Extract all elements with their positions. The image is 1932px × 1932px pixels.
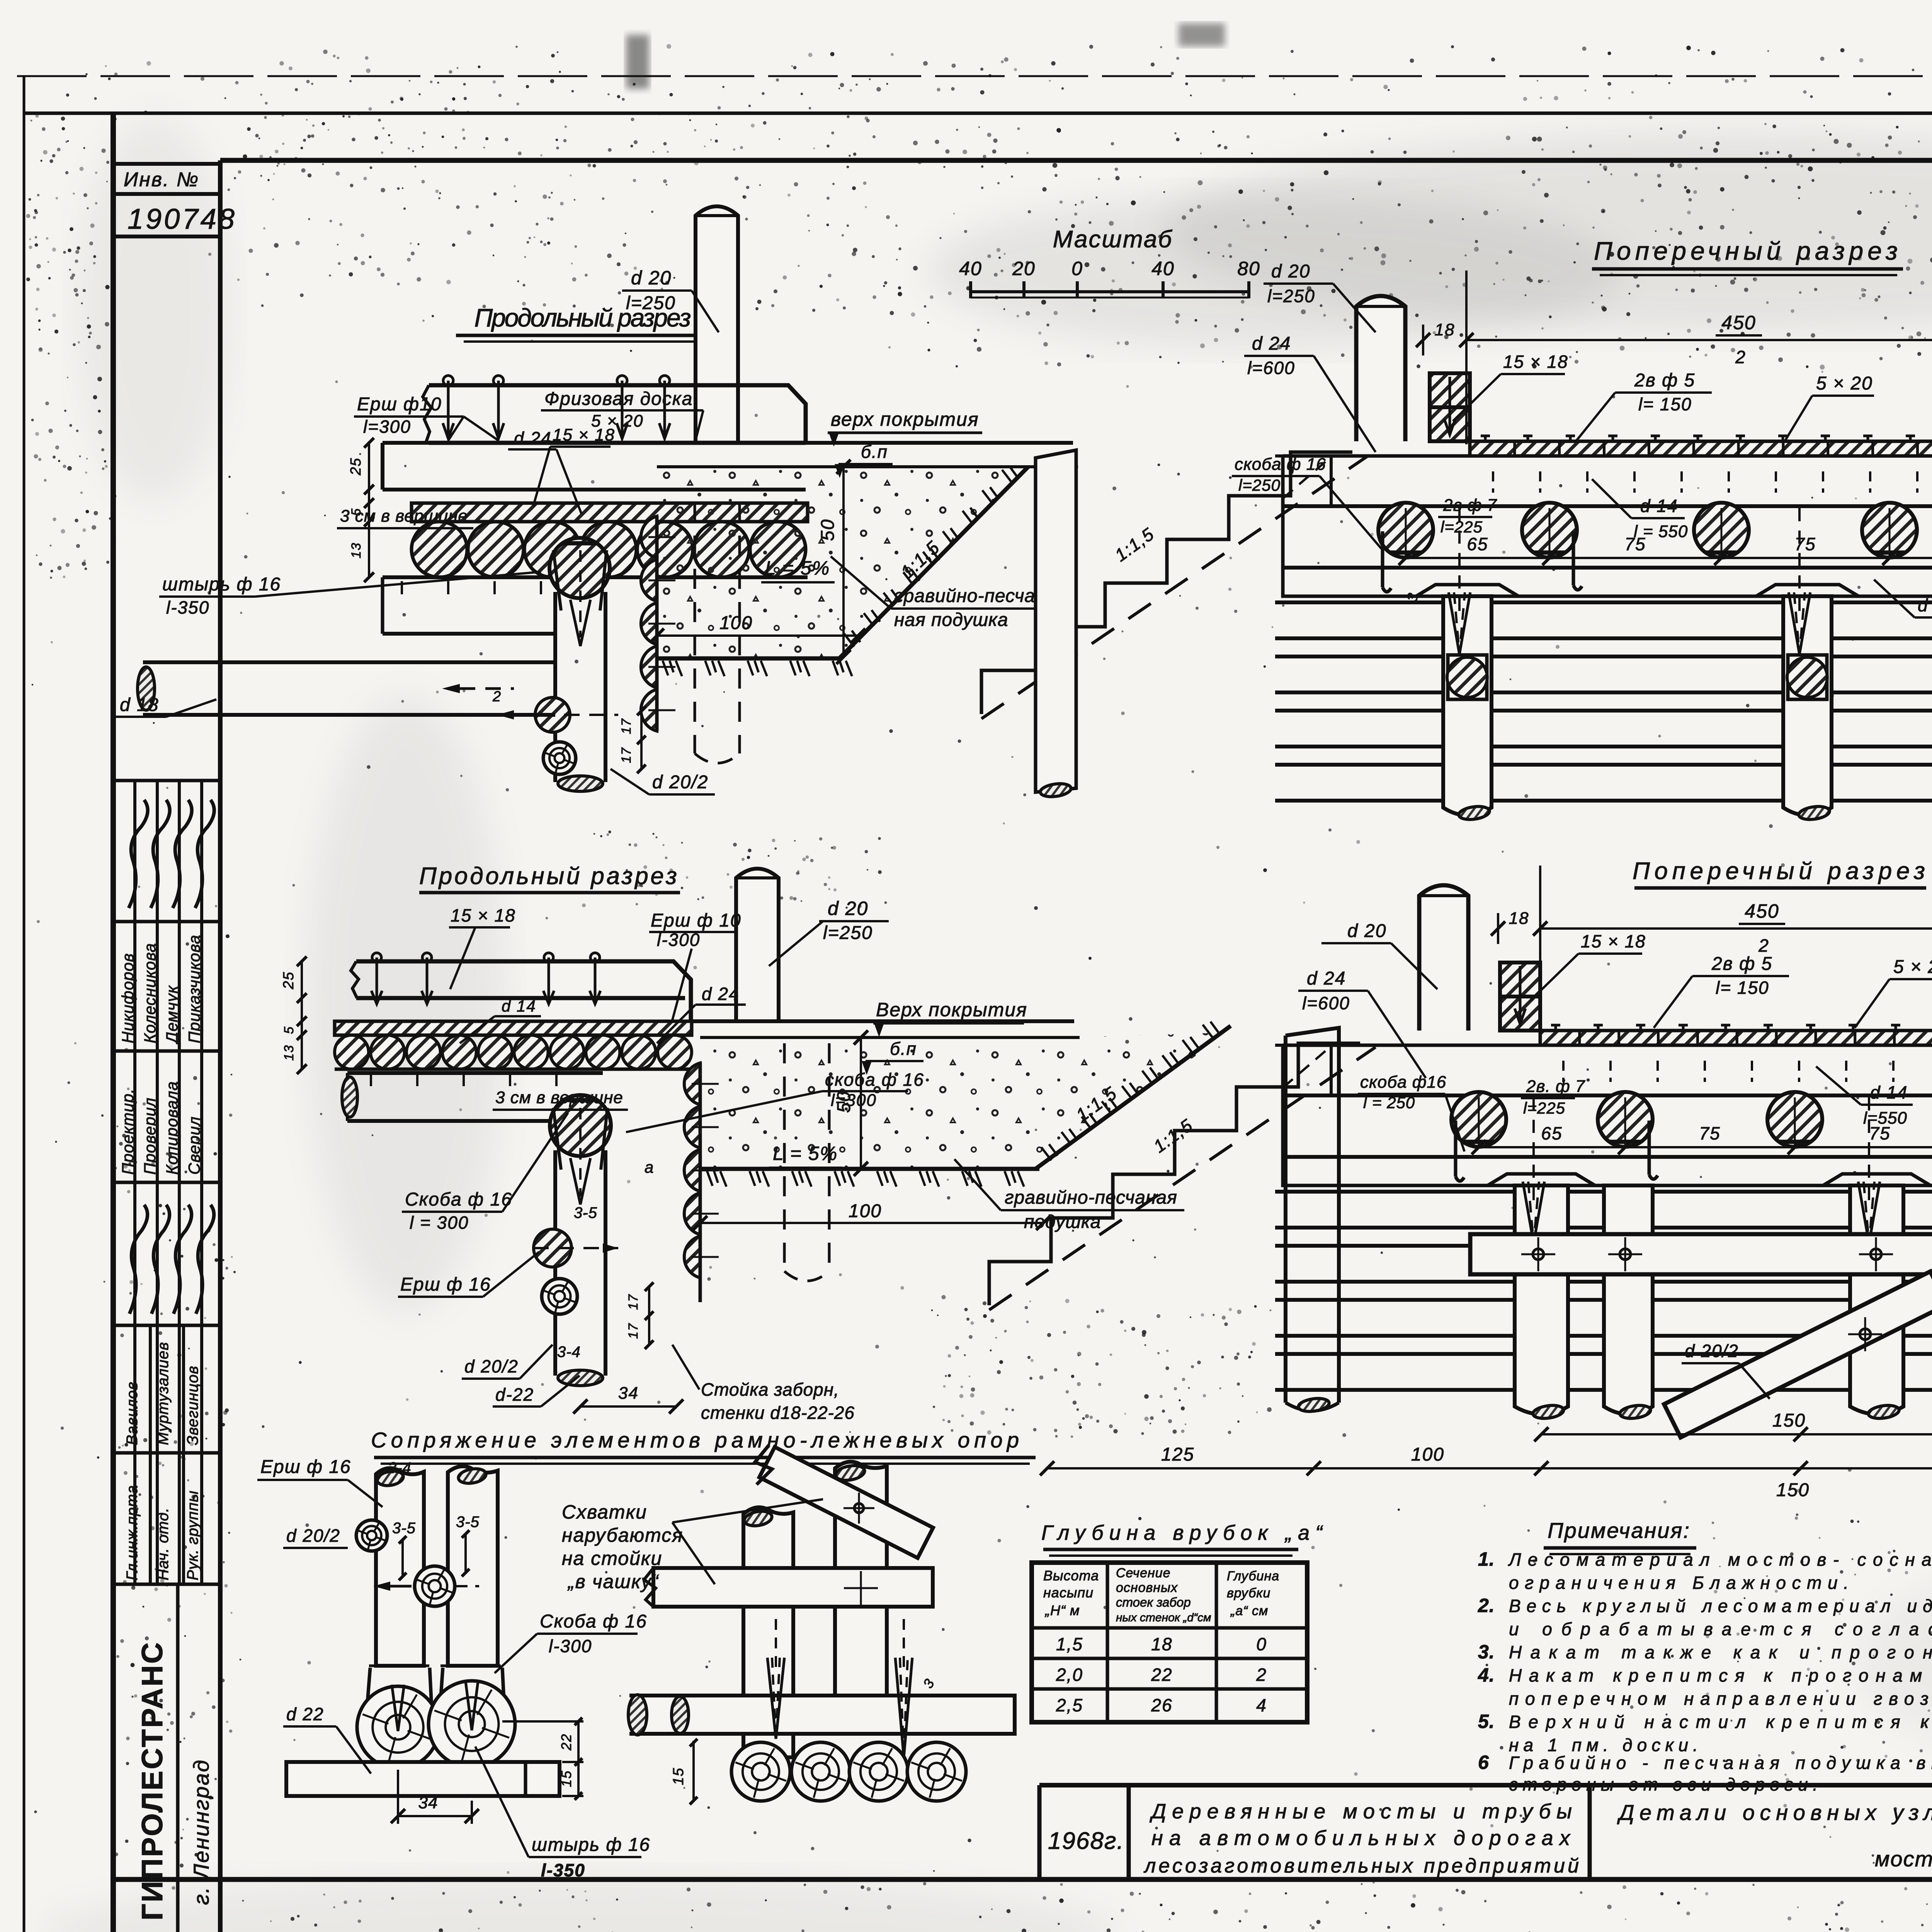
- outer sheet border (thin): [17, 75, 1932, 77]
- svg-text:34: 34: [418, 1793, 438, 1812]
- svg-text:20: 20: [1012, 258, 1036, 279]
- CS1 embankment steps: [981, 452, 1368, 719]
- svg-text:„а“ см: „а“ см: [1230, 1604, 1268, 1618]
- svg-text:l=250: l=250: [1238, 476, 1281, 494]
- LS2 labels: [398, 898, 1184, 1423]
- svg-text:d 20: d 20: [631, 267, 672, 289]
- svg-text:l= 150: l= 150: [1716, 978, 1769, 998]
- org city г. Ленинград rotated: [189, 1759, 213, 1905]
- svg-text:мостов: мостов: [1875, 1847, 1932, 1871]
- assembly left: posts on лежень: [286, 1466, 583, 1824]
- svg-text:22: 22: [558, 1733, 574, 1751]
- svg-text:65: 65: [1467, 534, 1488, 554]
- dim L=5%: [769, 1143, 842, 1168]
- CS2 embankment steps: [989, 1043, 1376, 1310]
- LONGITUDINAL SECTION 2: [281, 869, 1231, 1386]
- svg-text:3-4: 3-4: [388, 1459, 412, 1476]
- bottom dims: [1541, 1433, 1932, 1435]
- схватка end (rings): [542, 1279, 577, 1314]
- svg-text:6: 6: [1478, 1752, 1489, 1773]
- насадка band: [1283, 1155, 1932, 1159]
- svg-text:d 24: d 24: [1252, 333, 1291, 354]
- ерш ф16 (hatched small circle): [534, 1229, 571, 1267]
- svg-text:5 × 20: 5 × 20: [1893, 957, 1932, 977]
- slope line 1:1.5: [1036, 1026, 1231, 1169]
- svg-text:насыпи: насыпи: [1043, 1585, 1094, 1600]
- svg-text:г. Ленинград: г. Ленинград: [189, 1759, 213, 1905]
- прогоны (hatched circles): [1378, 503, 1433, 558]
- svg-text:25: 25: [348, 457, 364, 476]
- svg-text:l=250: l=250: [823, 923, 873, 943]
- svg-text:Примечания:: Примечания:: [1548, 1518, 1690, 1543]
- dim 50: [842, 467, 845, 657]
- схватка d16 plank: [1470, 1234, 1932, 1274]
- svg-text:18: 18: [1435, 320, 1455, 339]
- svg-text:15: 15: [558, 1770, 574, 1787]
- настил board band: [1283, 1044, 1932, 1047]
- svg-text:Верх покрытия: Верх покрытия: [876, 999, 1027, 1020]
- svg-text:l = 300: l = 300: [410, 1213, 469, 1233]
- svg-text:а: а: [645, 1158, 654, 1176]
- svg-text:17: 17: [626, 1294, 641, 1310]
- svg-text:врубки: врубки: [1227, 1586, 1270, 1600]
- сваи (piles): [1443, 596, 1492, 815]
- верхний настил (hatched strip): [1470, 441, 1932, 456]
- svg-text:d 20: d 20: [1347, 921, 1386, 941]
- опорная стойка (pile): [553, 592, 557, 782]
- svg-text:l=250: l=250: [1267, 286, 1315, 306]
- svg-text:гравийно-песчаная: гравийно-песчаная: [1005, 1187, 1177, 1208]
- svg-text:Весь круглый лесоматериал: Весь круглый лесоматериал идет в дело с …: [1509, 1596, 1932, 1616]
- dims 17 17: [640, 711, 643, 769]
- svg-text:l-350: l-350: [541, 1860, 585, 1880]
- stamp column rotated names: [119, 800, 214, 1314]
- svg-text:75: 75: [1699, 1123, 1720, 1143]
- svg-text:Масштаб: Масштаб: [1053, 226, 1173, 253]
- накат logs row: [335, 1035, 369, 1069]
- svg-text:40: 40: [1151, 258, 1175, 279]
- svg-text:Продольный разрез: Продольный разрез: [419, 863, 678, 889]
- svg-text:5.: 5.: [1478, 1711, 1495, 1732]
- deck plank (hatched strip): [412, 503, 808, 522]
- насадка band: [1283, 566, 1932, 570]
- svg-text:1968г.: 1968г.: [1048, 1828, 1124, 1854]
- svg-text:l= 150: l= 150: [1638, 394, 1692, 414]
- svg-text:стоек забор: стоек забор: [1116, 1595, 1191, 1609]
- svg-text:l=600: l=600: [1302, 993, 1350, 1013]
- svg-text:65: 65: [1541, 1123, 1562, 1143]
- заборная стенка logs: [1275, 600, 1932, 604]
- svg-text:40: 40: [959, 258, 982, 279]
- stamp column roles bottom: [124, 1325, 201, 1584]
- LS1 labels: [116, 267, 1070, 794]
- svg-text:нарубаются: нарубаются: [562, 1524, 683, 1546]
- deck plank (hatched): [335, 1021, 692, 1035]
- svg-text:3 см в вершине: 3 см в вершине: [495, 1088, 623, 1107]
- svg-text:2: 2: [1256, 1665, 1267, 1685]
- svg-text:15 × 18: 15 × 18: [451, 905, 516, 925]
- svg-text:l=300: l=300: [831, 1091, 877, 1110]
- dims 17 17: [648, 1287, 650, 1345]
- svg-text:основных: основных: [1116, 1580, 1178, 1595]
- svg-text:l=550: l=550: [1863, 1109, 1907, 1128]
- svg-text:Сопряжение элементов рамно-л: Сопряжение элементов рамно-лежневых опор: [371, 1428, 1020, 1452]
- svg-text:ная подушка: ная подушка: [894, 610, 1008, 630]
- svg-text:5 × 20: 5 × 20: [1816, 373, 1873, 394]
- svg-text:34: 34: [618, 1384, 639, 1403]
- svg-text:1,5: 1,5: [1056, 1634, 1083, 1654]
- title: Поперечный разрез (top): [1592, 236, 1903, 275]
- заборная стенка logs: [1275, 1190, 1932, 1194]
- svg-text:„в чашку“: „в чашку“: [567, 1571, 659, 1592]
- svg-text:l-300: l-300: [549, 1636, 592, 1656]
- svg-text:гравийно-песча-: гравийно-песча-: [894, 586, 1042, 606]
- svg-text:100: 100: [719, 613, 753, 633]
- road surface lines: [806, 441, 1073, 445]
- svg-text:3-4: 3-4: [557, 1344, 581, 1361]
- diagonal схватка d20/2: [1664, 1271, 1932, 1437]
- svg-text:13: 13: [349, 542, 364, 558]
- svg-text:2,5: 2,5: [1056, 1695, 1083, 1715]
- deck top board: [429, 385, 806, 443]
- svg-text:d 20/2: d 20/2: [1685, 1341, 1739, 1361]
- svg-text:подушка: подушка: [1024, 1212, 1101, 1232]
- svg-text:150: 150: [1772, 1410, 1806, 1431]
- svg-text:на стойки: на стойки: [562, 1548, 662, 1569]
- svg-text:3-5: 3-5: [574, 1204, 597, 1221]
- svg-text:5: 5: [282, 1026, 296, 1034]
- svg-text:Ерш ф10: Ерш ф10: [357, 394, 442, 415]
- svg-text:Ерш ф 16: Ерш ф 16: [260, 1457, 351, 1477]
- svg-text:0: 0: [1071, 258, 1083, 279]
- svg-text:15 × 18: 15 × 18: [1503, 352, 1568, 372]
- dim L=5%: [761, 557, 835, 582]
- svg-text:d 14: d 14: [1870, 1082, 1908, 1102]
- svg-text:Ерш ф 16: Ерш ф 16: [400, 1274, 491, 1295]
- насадка d24 (hatched circle): [549, 538, 610, 598]
- svg-text:75: 75: [1794, 534, 1816, 554]
- title: Продольный разрез (top): [456, 303, 711, 342]
- svg-text:Колесникова: Колесникова: [141, 943, 159, 1043]
- dim 100: [700, 1222, 1043, 1224]
- dim 50: [860, 1037, 862, 1169]
- svg-text:Рук. группы: Рук. группы: [184, 1490, 201, 1580]
- перила стойка d20: [1356, 296, 1405, 441]
- svg-text:0: 0: [1256, 1634, 1267, 1654]
- svg-text:150: 150: [1776, 1480, 1810, 1500]
- svg-text:Схватки: Схватки: [562, 1501, 647, 1523]
- svg-text:3.: 3.: [1478, 1641, 1495, 1663]
- svg-text:26: 26: [1151, 1695, 1172, 1715]
- svg-text:2в ф 5: 2в ф 5: [1634, 370, 1695, 391]
- svg-text:l=225: l=225: [1440, 518, 1483, 536]
- заборная стенка (wall log halves): [641, 516, 657, 558]
- гравийно-песчаная подушка (dotted area): [657, 467, 1028, 658]
- svg-text:Ерш ф 10: Ерш ф 10: [651, 910, 742, 931]
- svg-text:15: 15: [670, 1767, 687, 1785]
- штырь circle: [535, 697, 570, 732]
- svg-text:d 18: d 18: [120, 695, 159, 715]
- svg-text:штырь ф 16: штырь ф 16: [532, 1835, 650, 1855]
- svg-text:Фризовая доска: Фризовая доска: [544, 389, 693, 409]
- svg-text:18: 18: [1151, 1634, 1172, 1654]
- насадка d24 (hatched circle): [550, 1095, 611, 1156]
- nails ерш: [443, 381, 454, 439]
- svg-text:100: 100: [1411, 1444, 1444, 1465]
- svg-text:„Н“ м: „Н“ м: [1044, 1602, 1080, 1618]
- svg-text:б.п: б.п: [861, 442, 888, 462]
- svg-text:стенки d18-22-26: стенки d18-22-26: [701, 1403, 855, 1423]
- svg-text:2: 2: [1758, 935, 1769, 956]
- svg-text:100: 100: [849, 1201, 882, 1221]
- svg-text:4.: 4.: [1478, 1664, 1495, 1686]
- title: Глубина врубок а: [1041, 1521, 1323, 1556]
- left edge dims: [301, 961, 303, 1069]
- svg-text:Стойка заборн,: Стойка заборн,: [701, 1379, 839, 1400]
- svg-text:3 см в вершине: 3 см в вершине: [340, 507, 468, 526]
- заборная стенка (wall log halves): [684, 1063, 700, 1105]
- title block: project name: [1143, 1800, 1579, 1877]
- колесоотбойный брус 15×18: [1500, 963, 1540, 997]
- перила стойка d20: [1419, 885, 1468, 1031]
- svg-text:25: 25: [281, 971, 297, 990]
- railing post d20: [736, 869, 779, 1021]
- svg-text:450: 450: [1721, 312, 1756, 333]
- svg-text:Демчук: Демчук: [163, 985, 181, 1045]
- left edge dims 25/5/13: [368, 443, 370, 577]
- svg-text:2в. ф 7: 2в. ф 7: [1526, 1077, 1585, 1096]
- svg-text:d 14: d 14: [502, 997, 536, 1015]
- ground line: [700, 1167, 1039, 1171]
- svg-text:Скоба ф 16: Скоба ф 16: [540, 1611, 647, 1632]
- svg-text:d-22: d-22: [495, 1384, 534, 1405]
- svg-text:l=250: l=250: [626, 293, 676, 313]
- buried pile (dashed): [783, 1043, 786, 1271]
- коротыши (squares with hatched circles): [1448, 655, 1487, 699]
- svg-text:Нач. отд.: Нач. отд.: [155, 1507, 172, 1580]
- left стойка (pile): [1286, 1028, 1339, 1403]
- svg-text:Поперечный разрез: Поперечный разрез: [1594, 236, 1899, 265]
- колесоотбойный брус 15×18: [1430, 373, 1470, 407]
- CROSS-SECTION 1 (top): [1275, 296, 1932, 821]
- org name ГИПРОЛЕСТРАНС rotated: [136, 1584, 178, 1932]
- dims 65 75 75 75/2: [1479, 1146, 1932, 1148]
- svg-text:l=300: l=300: [363, 417, 411, 437]
- svg-text:Муртузалиев: Муртузалиев: [155, 1342, 172, 1445]
- svg-text:L = 5%: L = 5%: [765, 557, 830, 579]
- svg-text:штырь ф 16: штырь ф 16: [162, 574, 281, 595]
- title block: sheet name: [1617, 1800, 1932, 1871]
- stamp column: Инв. № box: [113, 164, 220, 194]
- svg-text:Никифоров: Никифоров: [119, 953, 137, 1043]
- верхний настил (hatched strip): [1540, 1031, 1932, 1045]
- svg-text:l=225: l=225: [1523, 1099, 1565, 1117]
- dim 100: [657, 634, 858, 637]
- сваи (piles): [1515, 1185, 1568, 1414]
- svg-text:125: 125: [1161, 1444, 1194, 1465]
- насадка cap with notches: [1283, 1157, 1932, 1185]
- svg-text:Поперечный разрез: Поперечный разрез: [1633, 858, 1926, 884]
- svg-text:d 20/2: d 20/2: [464, 1356, 519, 1376]
- svg-text:Проектир.: Проектир.: [119, 1088, 137, 1175]
- настил board band: [1283, 454, 1932, 458]
- svg-text:50: 50: [818, 519, 838, 541]
- svg-text:Приказчикова: Приказчикова: [185, 935, 203, 1043]
- stamp column: inventory number 190748: [113, 194, 220, 236]
- svg-text:13: 13: [282, 1044, 296, 1061]
- notes text: [1478, 1548, 1932, 1794]
- схватка end (rings): [543, 742, 576, 774]
- ground line: [657, 656, 842, 661]
- assembly left labels: [257, 1457, 650, 1880]
- svg-text:190748: 190748: [128, 203, 237, 235]
- svg-text:17: 17: [626, 1323, 641, 1339]
- svg-text:3-5: 3-5: [392, 1520, 416, 1537]
- title: Примечания: [1544, 1518, 1696, 1554]
- main drawing frame: [111, 113, 116, 1932]
- svg-text:2в ф 5: 2в ф 5: [1711, 954, 1772, 974]
- svg-text:d 20/2: d 20/2: [286, 1526, 340, 1546]
- railing post d20: [696, 206, 738, 443]
- svg-text:скоба ф16: скоба ф16: [1360, 1073, 1446, 1092]
- svg-text:1.: 1.: [1478, 1548, 1495, 1570]
- svg-text:l-350: l-350: [166, 597, 209, 617]
- svg-text:d 24: d 24: [514, 428, 552, 448]
- svg-text:2: 2: [492, 689, 502, 705]
- svg-text:скоба ф 16: скоба ф 16: [825, 1070, 924, 1090]
- svg-text:d 28: d 28: [1918, 595, 1932, 615]
- svg-text:Скоба ф 16: Скоба ф 16: [405, 1189, 512, 1210]
- CS1 dims & labels: [1232, 261, 1932, 617]
- svg-text:d 20: d 20: [1271, 261, 1310, 282]
- svg-text:450: 450: [1745, 900, 1779, 922]
- svg-text:80: 80: [1237, 258, 1260, 279]
- svg-text:б.п: б.п: [890, 1039, 917, 1059]
- scale bar: [959, 258, 1260, 298]
- svg-text:d 20: d 20: [828, 898, 868, 919]
- svg-text:l = 550: l = 550: [1634, 522, 1688, 541]
- гравийно-песчаная подушка (dotted area): [700, 1032, 1229, 1169]
- svg-text:Инв. №: Инв. №: [124, 168, 199, 191]
- прогон beam: [346, 1073, 349, 1121]
- nails ерш: [371, 957, 382, 1004]
- title: Поперечный разрез (bottom): [1633, 858, 1926, 888]
- прогоны (hatched circles): [1451, 1092, 1506, 1147]
- outer frame line: [24, 112, 1932, 115]
- svg-text:17: 17: [619, 718, 634, 734]
- svg-text:4: 4: [1256, 1695, 1267, 1715]
- svg-text:Сечение: Сечение: [1116, 1566, 1171, 1580]
- svg-text:d 14: d 14: [1640, 496, 1678, 516]
- title block frame: [1039, 1785, 1932, 1879]
- svg-text:ГИПРОЛЕСТРАНС: ГИПРОЛЕСТРАНС: [136, 1641, 169, 1920]
- svg-text:22: 22: [1151, 1665, 1172, 1685]
- svg-text:15 × 18: 15 × 18: [1581, 931, 1646, 951]
- svg-text:l=600: l=600: [1247, 358, 1295, 378]
- CS1 left plank: [1036, 450, 1076, 798]
- svg-text:2: 2: [1735, 347, 1746, 367]
- stamp column signature grid: [113, 781, 220, 1584]
- svg-text:5 × 20: 5 × 20: [591, 412, 644, 430]
- deck second band: [383, 443, 806, 490]
- CS2 dims & labels: [1040, 866, 1932, 1534]
- svg-text:L = 5%: L = 5%: [773, 1143, 838, 1164]
- CROSS-SECTION 2 (bottom): [1275, 885, 1932, 1437]
- svg-text:d 20/2: d 20/2: [652, 772, 708, 793]
- svg-text:скоба ф 16: скоба ф 16: [1235, 455, 1326, 474]
- title: Продольный разрез (bottom): [419, 863, 680, 893]
- assembly right: frame with схватки: [628, 1445, 1015, 1804]
- buried pile (dashed): [694, 502, 696, 753]
- svg-text:ных стенок „d“см: ных стенок „d“см: [1116, 1611, 1211, 1624]
- LONGITUDINAL SECTION 1: [138, 206, 1078, 791]
- svg-text:Вавилов: Вавилов: [124, 1381, 141, 1445]
- svg-text:2,0: 2,0: [1056, 1665, 1083, 1685]
- svg-text:Накат также как и про: Накат также как и прогоны укладываются к…: [1509, 1642, 1932, 1662]
- deck top board: [356, 961, 691, 1020]
- svg-text:18: 18: [1509, 909, 1529, 928]
- road surface lines: [692, 1019, 1074, 1023]
- svg-text:Копировала: Копировала: [163, 1081, 181, 1175]
- svg-text:d 22: d 22: [286, 1704, 324, 1724]
- svg-text:2в ф 7: 2в ф 7: [1443, 496, 1497, 515]
- svg-text:d 24: d 24: [1307, 968, 1346, 989]
- slope line 1:1.5: [839, 467, 1028, 658]
- svg-text:верх покрытия: верх покрытия: [831, 408, 979, 430]
- накат logs row: [412, 522, 467, 577]
- svg-text:Глубина: Глубина: [1227, 1569, 1279, 1583]
- assembly right labels: [562, 1499, 823, 1592]
- насадка cap with notches: [1283, 568, 1932, 596]
- svg-text:Звегинцов: Звегинцов: [184, 1366, 201, 1445]
- svg-text:Сверил: Сверил: [185, 1116, 203, 1175]
- lower лежень d18: [143, 660, 555, 664]
- прогон beam: [383, 575, 555, 579]
- table Глубина врубок: [1032, 1563, 1307, 1722]
- svg-text:2.: 2.: [1478, 1595, 1495, 1616]
- svg-text:l = 250: l = 250: [1363, 1094, 1415, 1112]
- title: Сопряжение элементов рамно-лежневых опор: [371, 1428, 1036, 1464]
- dims 65 75 75 75/2: [1406, 557, 1932, 559]
- опорная стойка (pile): [553, 1150, 557, 1376]
- svg-text:Проверил: Проверил: [141, 1097, 159, 1175]
- svg-text:d 24: d 24: [702, 984, 740, 1004]
- svg-text:Высота: Высота: [1043, 1568, 1099, 1583]
- svg-text:3-5: 3-5: [456, 1514, 480, 1531]
- svg-text:Гл.инж.прта: Гл.инж.прта: [124, 1485, 141, 1580]
- svg-text:17: 17: [619, 747, 634, 763]
